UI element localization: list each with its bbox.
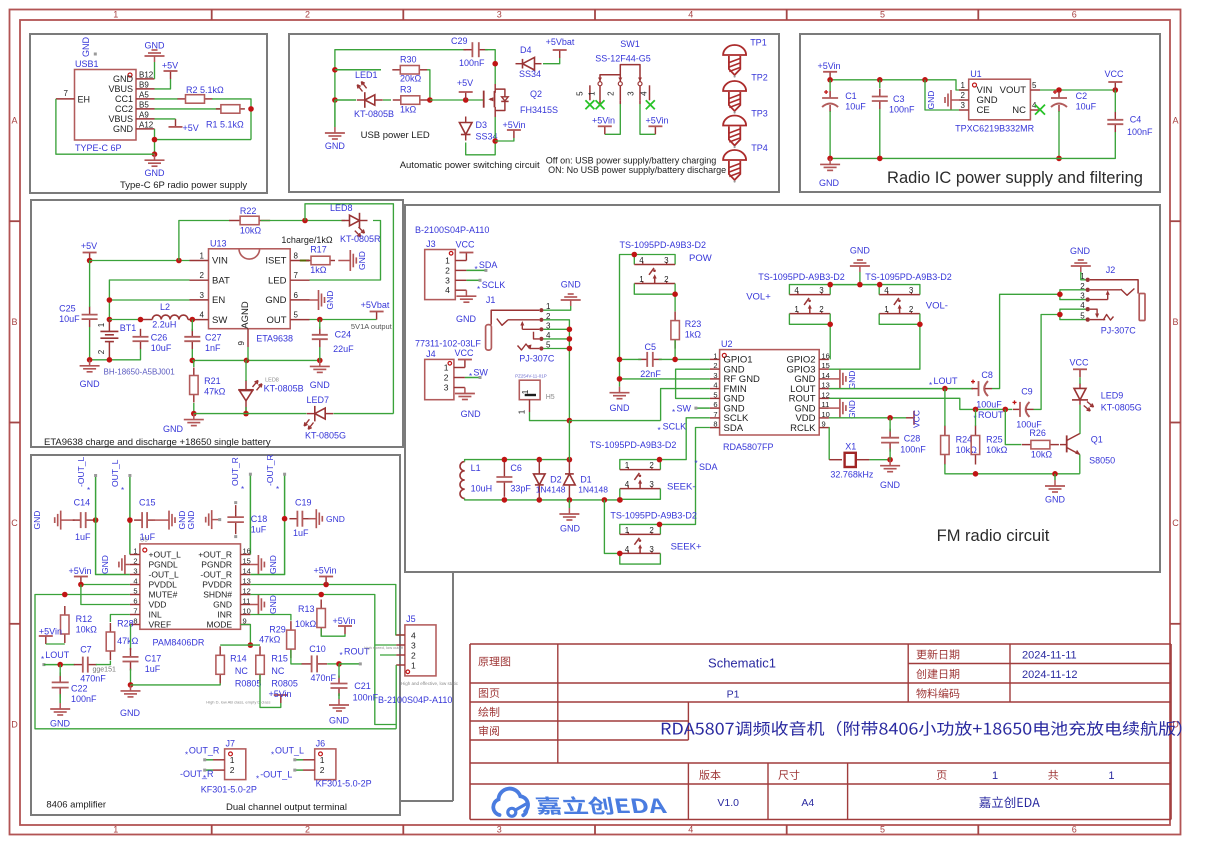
svg-text:LED8: LED8 [330,203,353,213]
ground symbol FM rail [1045,474,1066,505]
svg-text:GND: GND [145,168,166,178]
rotated ground at PGNDL pin2 [100,555,130,574]
svg-text:+5Vin: +5Vin [645,115,668,125]
capacitor C27 1nF [184,329,221,353]
svg-text:GND: GND [456,314,477,324]
svg-text:PVDDR: PVDDR [202,580,232,590]
block frame FM radio circuit [405,205,1160,572]
svg-text:10: 10 [822,410,830,419]
capacitor C14 1uF [73,498,94,543]
junction [973,471,979,477]
wire bottom rail FM [945,464,1080,474]
resistor R26 10k [1022,428,1059,460]
power flag VCC at J3 [455,240,475,261]
ground symbol R21 [163,414,204,434]
wire GND pins 2-5 bridge [676,369,710,398]
svg-text:R14: R14 [230,654,247,664]
svg-text:4: 4 [794,286,799,295]
svg-text:D3: D3 [476,120,488,130]
power flag +5Vbat charger [361,300,390,320]
svg-text:LED7: LED7 [307,395,330,405]
net label LOUT wire [41,650,75,666]
wire R25 top [975,409,977,426]
transistor Q2 FH3415S pmos [484,84,558,117]
wire top rail to C29 [335,50,466,100]
svg-text:12: 12 [822,390,830,399]
svg-text:2: 2 [664,275,669,284]
svg-text:3: 3 [819,286,824,295]
wire C25 top [89,261,91,308]
svg-text:1kΩ: 1kΩ [685,330,702,340]
battery BT1 BH-18650-A5BJ001 [97,320,175,377]
junction [128,682,134,688]
svg-text:2: 2 [649,461,654,470]
svg-text:B9: B9 [139,80,149,89]
junction [877,156,883,162]
svg-text:+5Vbat: +5Vbat [546,37,575,47]
svg-text:+5V: +5V [162,61,178,71]
svg-text:INL: INL [149,610,163,620]
connector USB1 TYPE-C 6P [56,59,155,153]
junction [657,457,663,463]
junction [282,516,288,522]
wire SW1 pin2 to +5Vin [605,104,621,134]
wire [544,348,570,350]
svg-text:GND: GND [561,280,582,290]
svg-text:U1: U1 [970,69,982,79]
wire L1 top rail [465,460,570,462]
resistor R12 10k [61,606,98,643]
svg-text:GND: GND [81,37,91,58]
wire R30 right down to R3 node [427,70,430,100]
wire C27 top [191,320,193,332]
test point TP3 [723,109,768,149]
svg-text:10uF: 10uF [1076,102,1097,112]
net label -OUT_R at J7 [180,769,214,783]
crystal X1 32.768kHz [829,442,874,480]
junction [877,77,883,83]
svg-text:2: 2 [133,557,137,566]
block frame ETA9638 charger [31,200,403,447]
svg-text:C7: C7 [80,645,92,655]
junction [502,457,508,463]
junction [672,357,678,363]
junction [827,322,833,328]
svg-text:J2: J2 [1106,265,1116,275]
wire EN [109,299,189,301]
svg-text:SW: SW [473,368,488,378]
svg-text:*: * [475,265,478,274]
resistor R25 10k [971,426,1007,465]
svg-text:LOUT: LOUT [934,376,959,386]
svg-text:1uF: 1uF [251,525,267,535]
svg-text:2: 2 [444,373,449,383]
svg-text:SS-12F44-G5: SS-12F44-G5 [595,54,651,64]
wire CC2 to R1 [155,108,222,110]
svg-text:ROUT: ROUT [978,410,1004,420]
svg-text:GND: GND [1070,246,1091,256]
resistor R14 NC R0805 [216,646,262,688]
svg-text:+5Vin: +5Vin [268,689,291,699]
junction [827,282,833,288]
wire BAT loop [109,280,189,320]
wire POW bottom to R23 [674,294,676,311]
junction [657,522,663,528]
svg-text:3: 3 [497,825,502,835]
wire ROUT jog [829,398,1013,409]
svg-text:8: 8 [133,617,137,626]
svg-text:PAM8406DR: PAM8406DR [153,638,205,648]
resistor R1 5.1k [206,105,245,130]
svg-text:1uF: 1uF [293,528,309,538]
wire Q1 emitter to rail [1079,455,1081,474]
svg-text:Schematic1: Schematic1 [708,656,776,671]
net label SW wire at J4 [465,368,489,382]
svg-text:POW: POW [689,253,712,264]
svg-text:SCLK: SCLK [663,422,687,432]
wire LED-B top [245,360,248,381]
svg-text:GND: GND [325,141,346,151]
svg-text:10kΩ: 10kΩ [295,619,317,629]
wire [544,328,570,330]
svg-text:C3: C3 [893,94,905,104]
svg-text:high speed, low cutoff: high speed, low cutoff [364,645,404,650]
charger U13 ETA9638 [190,239,310,348]
wire VDD to VCC [829,417,906,419]
svg-text:C15: C15 [139,498,156,508]
svg-text:J3: J3 [426,239,436,249]
svg-text:GND: GND [80,379,101,389]
capacitor C17 1uF [123,648,162,674]
svg-text:A5: A5 [139,90,149,99]
svg-text:C25: C25 [59,304,76,314]
svg-text:Automatic power switching circ: Automatic power switching circuit [400,160,540,171]
connector J7 KF301-5.0-2P [201,738,257,794]
wire INL to R28 [110,615,129,623]
junction [1057,312,1063,318]
wire SCLK to SEEK- [660,418,710,460]
connector J4 77311-102-03LF [415,339,481,400]
ground symbol C21 [329,693,350,725]
svg-text:+5Vbat: +5Vbat [361,300,390,310]
svg-text:U2: U2 [721,339,733,349]
svg-text:12: 12 [243,587,251,596]
svg-text:13: 13 [822,381,830,390]
svg-text:*: * [672,408,675,417]
svg-text:C6: C6 [510,463,522,473]
svg-text:SDA: SDA [699,462,718,472]
wire bottom A12 loop [154,129,156,154]
svg-text:+5V: +5V [183,123,199,133]
svg-text:5: 5 [576,91,585,96]
wire PVDDR to J5 [250,585,405,636]
wire J1 vertical to FM rail [568,421,570,460]
junction [248,106,254,112]
svg-text:6: 6 [133,597,137,606]
wire [155,79,171,89]
wire C27 bottom to gnd wire [192,349,319,360]
junction [190,317,196,323]
svg-text:High and effective, low static: High and effective, low static [401,681,459,686]
svg-text:3: 3 [961,101,966,110]
svg-text:B12: B12 [139,70,154,79]
junction [617,357,623,363]
svg-text:1: 1 [884,305,889,314]
ground symbol at J3 pin4 [456,290,477,324]
wire D3 bottom loop to Q2 source [466,117,496,155]
junction [973,407,979,413]
wire SDA to SEEK+ [660,428,710,525]
wire L1 bottom rail [465,498,620,500]
resistor R22 10k [229,206,270,236]
svg-text:C21: C21 [354,681,371,691]
junction [887,415,893,421]
junction [1057,292,1063,298]
wire C1 top [829,80,831,91]
svg-text:S8050: S8050 [1089,456,1115,466]
svg-text:*: * [929,381,932,390]
svg-text:B: B [11,317,17,327]
svg-text:7: 7 [713,410,717,419]
power flag +5Vin below R12 [39,627,62,645]
capacitor C1 10uF polarized [822,90,866,112]
svg-text:5V1A output: 5V1A output [351,322,393,331]
wire R26 feed [1005,409,1021,444]
svg-text:C10: C10 [309,644,326,654]
svg-text:15: 15 [243,557,251,566]
svg-text:L1: L1 [471,463,481,473]
svg-text:3: 3 [444,383,449,393]
capacitor C10 470nF [302,644,337,683]
svg-text:A12: A12 [139,120,154,129]
svg-text:C9: C9 [1021,387,1033,397]
svg-text:7: 7 [64,89,69,98]
inductor L2 2.2uH [141,302,193,330]
svg-text:TS-1095PD-A9B3-D2: TS-1095PD-A9B3-D2 [620,240,707,250]
svg-text:GND: GND [461,409,482,419]
svg-text:J7: J7 [226,738,236,748]
svg-text:J4: J4 [426,349,436,359]
svg-text:*: * [276,485,279,494]
svg-text:*: * [271,751,274,760]
svg-text:ETA9638 charge and discharge +: ETA9638 charge and discharge +18650 sing… [44,437,271,448]
junction [317,317,323,323]
svg-text:47kΩ: 47kΩ [117,636,139,646]
caption Radio IC power supply and filtering [887,169,1143,187]
power flag VCC at J4 [454,348,474,368]
capacitor C24 22uF [312,327,354,354]
svg-text:OUT_R: OUT_R [230,457,240,486]
svg-text:3: 3 [909,286,914,295]
tiny note text [206,700,270,705]
svg-text:PGNDR: PGNDR [201,560,232,570]
svg-text:5: 5 [1032,81,1037,90]
svg-text:PGNDL: PGNDL [149,560,179,570]
radio IC U2 RDA5807FP [710,339,830,452]
LED LED1 KT-0805B [335,70,394,119]
svg-text:-OUT_R: -OUT_R [180,769,214,779]
ground symbol C22 [50,694,71,729]
svg-text:32.768kHz: 32.768kHz [830,470,874,480]
ground symbol left rail [610,387,631,413]
wire C8 right up to J2 [992,294,1060,388]
capacitor C21 100nF [331,676,379,703]
svg-text:11: 11 [822,400,830,409]
junction [672,291,678,297]
svg-text:*: * [469,372,472,381]
junction [244,358,250,364]
svg-text:+5Vin: +5Vin [332,616,355,626]
svg-text:U13: U13 [210,239,227,249]
svg-text:KT-0805G: KT-0805G [1101,403,1142,413]
svg-text:D: D [11,719,18,729]
wire up over to LED7 rail [305,204,393,414]
svg-text:33pF: 33pF [510,484,531,494]
text 1charge/1k [281,235,333,245]
svg-text:*: * [241,485,244,494]
ground symbol battery [80,360,101,389]
svg-text:+5Vin: +5Vin [502,120,525,130]
caption 8406 amplifier [46,800,106,811]
block frame automatic power switching [289,34,779,192]
svg-text:3: 3 [626,91,635,96]
svg-text:R30: R30 [400,55,417,65]
wire VREF to C17 [129,625,132,651]
svg-text:14: 14 [822,371,830,380]
connector J6 KF301-5.0-2P [293,738,371,788]
svg-text:15: 15 [822,361,830,370]
wire X1 right [869,459,890,461]
svg-text:NC: NC [1012,105,1026,116]
junction [302,218,308,224]
wire C9 right up to J2 pin4 [1034,315,1060,410]
svg-text:2: 2 [230,765,235,775]
svg-text:1: 1 [639,275,644,284]
svg-text:D1: D1 [580,475,592,485]
svg-text:MUTE#: MUTE# [149,590,178,600]
header H5 [515,374,555,415]
svg-text:3: 3 [713,371,717,380]
svg-text:C2: C2 [1076,91,1088,101]
wire C2 bottom [1058,111,1060,158]
svg-text:5: 5 [294,311,299,320]
svg-text:2: 2 [713,361,717,370]
capacitor C22 100nF [52,672,97,704]
test point TP1 [723,38,767,78]
svg-text:470nF: 470nF [311,673,337,683]
ground symbol C17 [120,685,141,718]
switch SW1 SS-12F44-G5 [576,39,651,104]
svg-text:VCC: VCC [1104,69,1124,79]
wire R3 to Q2 gate [430,99,484,101]
ground symbol top of USB1 [145,41,166,63]
svg-text:4: 4 [688,10,693,20]
caption Type-C block [120,180,247,191]
capacitor C18 1uF floating [227,501,267,538]
resistor R21 47k [190,368,226,403]
wire J5 pin1 to bottom rail [395,665,397,729]
junction [602,497,608,503]
svg-text:SDA: SDA [479,260,498,270]
svg-text:GND: GND [32,511,42,530]
wire C3 leads [879,80,881,88]
svg-text:8: 8 [713,420,717,429]
svg-text:ISET: ISET [265,256,286,267]
connector J3 B-2100S04P-A110 [415,225,489,300]
svg-text:22uF: 22uF [333,344,354,354]
wire AGND pin down [247,347,249,360]
svg-text:GND: GND [819,178,840,188]
svg-text:100nF: 100nF [1127,127,1153,137]
power flag +5Vin at PVDDR [313,566,336,585]
svg-text:Radio IC power supply and filt: Radio IC power supply and filtering [887,169,1143,187]
wire C4 bottom and ground rail [830,132,1115,158]
diode D1 1N4148 [564,459,609,499]
power flag +5Vin [817,61,840,80]
svg-text:R15: R15 [271,654,288,664]
ground symbol C24 [310,360,331,390]
ground symbol bottom of USB1 [145,154,166,178]
svg-text:10kΩ: 10kΩ [956,445,978,455]
svg-text:A9: A9 [139,110,149,119]
svg-text:4: 4 [445,285,450,295]
wire C7 right to R28 [96,661,111,665]
svg-text:2: 2 [649,526,654,535]
svg-text:High D, low AB class, empty D: High D, low AB class, empty D class [206,700,270,705]
svg-text:1kΩ: 1kΩ [400,105,417,115]
wire C29 right [485,50,495,64]
svg-text:-OUT_L: -OUT_L [260,770,292,780]
svg-text:SEEK-: SEEK- [667,482,696,493]
svg-text:1: 1 [588,91,597,96]
svg-text:C26: C26 [151,333,168,343]
net label OUT_L wire [110,459,131,554]
no-connect X pin5 [585,100,594,109]
svg-text:1: 1 [320,755,325,765]
svg-text:R2 5.1kΩ: R2 5.1kΩ [186,85,224,95]
svg-text:1uF: 1uF [75,532,91,542]
wire C1 bottom [829,111,831,158]
svg-text:2: 2 [819,305,824,314]
svg-text:L2: L2 [160,302,170,312]
transistor Q1 S8050 [1060,434,1115,466]
LED LED7 KT-0805G [304,395,346,441]
svg-text:X1: X1 [845,442,856,452]
capacitor C3 100nF [872,89,915,115]
rotated ground at R17 [338,250,367,271]
capacitor C2 10uF polarized [1051,90,1097,112]
junction [191,411,197,417]
ground symbol block3 [819,158,840,188]
no-connect X at U1 NC [1035,105,1045,115]
junction [1113,87,1119,93]
svg-text:2024-11-11: 2024-11-11 [1022,650,1077,662]
svg-text:VOUT: VOUT [1000,85,1027,96]
svg-text:GND: GND [120,708,141,718]
svg-text:J1: J1 [486,295,496,305]
wire VOL- to GPIO3 [829,324,920,369]
junction [827,77,833,83]
wire RCLK to X1 [828,428,830,460]
caption automatic power switching circuit [400,160,540,171]
svg-text:VBUS: VBUS [108,84,133,94]
svg-text:4: 4 [133,577,137,586]
svg-text:R21: R21 [204,376,221,386]
net label LOUT wire to C8 [829,376,973,390]
svg-text:GND: GND [50,719,71,729]
svg-text:C19: C19 [295,498,312,508]
svg-text:TP3: TP3 [751,109,768,119]
